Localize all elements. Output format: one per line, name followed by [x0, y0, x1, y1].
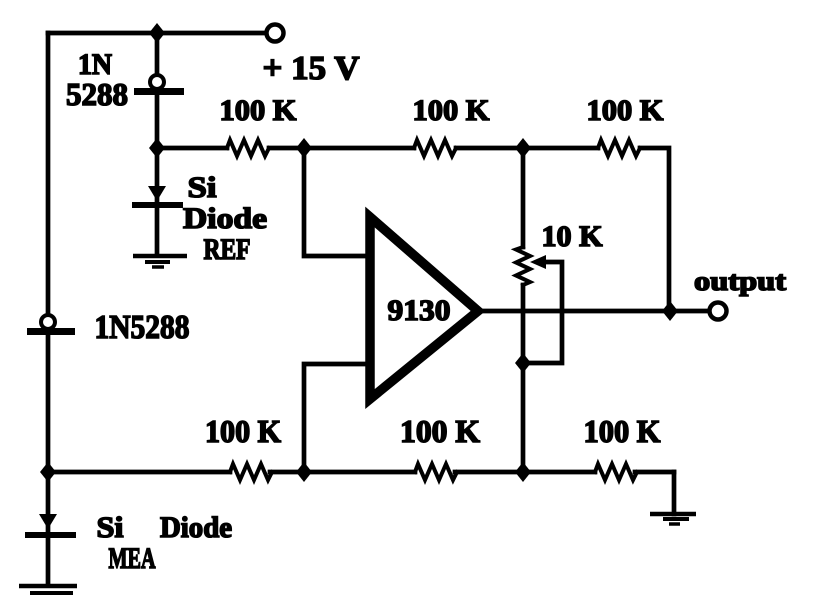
svg-text:1N5288: 1N5288: [95, 309, 190, 346]
junction dot node top rail: [149, 23, 165, 43]
current regulator diode D2 1N5288 circle (left): [41, 315, 55, 329]
svg-text:MEA: MEA: [109, 542, 156, 575]
terminal circle output: [710, 303, 727, 320]
svg-text:5288: 5288: [66, 76, 128, 112]
resistor R6 100K (bottom right): [595, 464, 637, 480]
junction dot node A: [149, 138, 165, 158]
wire op-amp bottom input: [304, 364, 371, 472]
svg-text:100 K: 100 K: [413, 94, 491, 127]
svg-text:100 K: 100 K: [220, 94, 298, 127]
current regulator diode D1 bar: [134, 88, 184, 95]
resistor R4 100K (bottom left): [230, 464, 272, 480]
wire pot bottom to bottom rail: [521, 285, 526, 472]
svg-text:100 K: 100 K: [584, 413, 661, 449]
current regulator diode D2 bar: [27, 328, 75, 335]
svg-text:+ 15 V: + 15 V: [263, 50, 360, 87]
resistor R1 100K (top left): [227, 140, 269, 156]
svg-text:100 K: 100 K: [400, 413, 480, 449]
wire Si diode MEA branch vertical: [46, 472, 51, 584]
wire node C vertical to pot top: [521, 148, 526, 247]
wire top rail from left corner to +15V terminal: [48, 31, 266, 36]
svg-text:Si: Si: [97, 511, 124, 544]
ground under Si diode MEA: [19, 586, 77, 593]
svg-text:Si: Si: [188, 171, 217, 204]
wire top current-diode branch vertical: [155, 33, 160, 148]
terminal circle +15V: [267, 25, 284, 42]
diode D3 Si REF arrowhead: [148, 186, 166, 201]
ground under Si diode REF: [133, 256, 187, 267]
svg-text:100 K: 100 K: [205, 413, 281, 449]
resistor R3 100K (top right): [598, 140, 640, 156]
potentiometer R7 10K vertical zigzag: [516, 247, 530, 285]
pot wiper arrow: [530, 255, 546, 269]
current regulator diode D1 1N5288 circle (top): [150, 75, 164, 89]
wire top right corner down to output node: [640, 148, 669, 311]
wire top row segment R1-R2: [269, 146, 414, 151]
junction dot output node: [662, 301, 678, 321]
ground bottom right: [650, 514, 696, 524]
wire bottom right corner to ground: [672, 472, 677, 514]
junction dot node B: [296, 138, 312, 158]
wire left rail vertical: [46, 33, 51, 472]
resistor R5 100K (bottom middle): [415, 464, 457, 480]
wire pot wiper loop: [523, 262, 562, 363]
junction dot wiper node: [515, 353, 531, 373]
svg-text:10 K: 10 K: [542, 220, 604, 253]
svg-text:output: output: [694, 266, 786, 296]
junction dot node G: [515, 462, 531, 482]
junction dot node C: [515, 138, 531, 158]
junction dot node F: [296, 462, 312, 482]
wire bottom rail: [48, 470, 674, 475]
diode D4 Si MEA arrowhead: [39, 514, 57, 529]
resistor R2 100K (top middle): [414, 140, 456, 156]
wire node B vertical to op-amp top input: [304, 148, 371, 256]
svg-text:Diode: Diode: [183, 202, 267, 235]
diode D4 Si MEA cathode bar: [25, 532, 76, 538]
wire Si diode REF branch vertical: [155, 148, 160, 253]
diode D3 Si REF cathode bar: [132, 202, 183, 208]
wire top row segment R2-R3: [456, 146, 598, 151]
junction dot node E: [40, 462, 56, 482]
svg-text:REF: REF: [204, 233, 251, 266]
svg-text:9130: 9130: [388, 294, 451, 327]
svg-text:100 K: 100 K: [587, 94, 665, 127]
wire top row segment A-R1: [157, 146, 227, 151]
wire op-amp output line: [478, 309, 709, 314]
svg-text:Diode: Diode: [160, 511, 232, 544]
op-amp U1 triangle: [370, 217, 478, 399]
